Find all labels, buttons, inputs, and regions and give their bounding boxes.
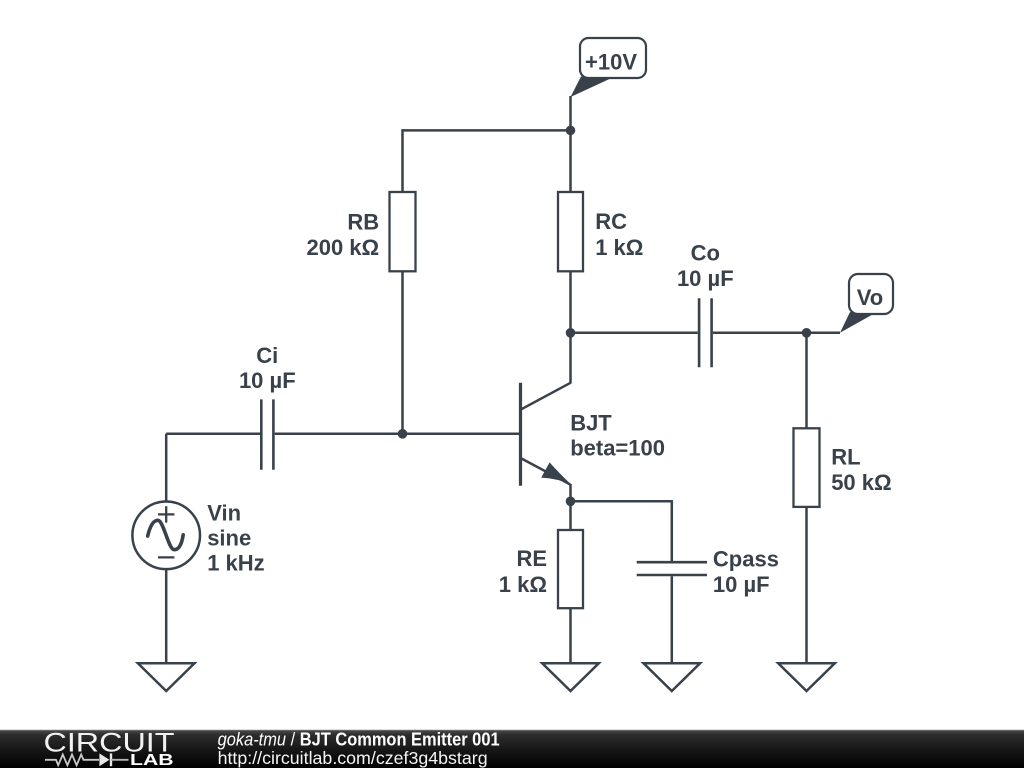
label RL 50 kOhm: [831, 444, 891, 495]
wire collector lead: [569, 333, 572, 384]
svg-text:Vin: Vin: [207, 500, 241, 525]
wire Vin bottom lead: [165, 569, 168, 663]
svg-text:1 kΩ: 1 kΩ: [499, 572, 547, 597]
ground RL: [778, 663, 835, 691]
label RC 1 kOhm: [595, 209, 643, 260]
svg-text:+10V: +10V: [585, 49, 637, 74]
svg-text:LAB: LAB: [130, 752, 174, 768]
wire Cpass top lead: [671, 500, 674, 561]
wire RE bottom lead: [569, 608, 572, 663]
node base junction: [398, 429, 408, 439]
wire RL top lead: [805, 333, 808, 429]
svg-text:RE: RE: [516, 546, 547, 571]
label Ci 10 uF: [239, 343, 296, 393]
capacitor Cpass: [637, 562, 707, 575]
label Co 10 uF: [677, 241, 734, 292]
svg-text:10 µF: 10 µF: [677, 266, 734, 291]
svg-text:http://circuitlab.com/czef3g4b: http://circuitlab.com/czef3g4bstarg: [218, 748, 488, 768]
svg-text:1 kHz: 1 kHz: [207, 551, 264, 576]
capacitor Ci: [261, 399, 273, 469]
resistor RC: [558, 192, 583, 271]
node supply junction: [566, 126, 576, 136]
svg-text:RB: RB: [347, 210, 379, 235]
wire Vin top lead: [165, 434, 168, 502]
svg-text:goka-tmu / BJT Common Emitter: goka-tmu / BJT Common Emitter 001: [218, 730, 500, 750]
footer bar: [0, 729, 1024, 768]
wire Co to Vo node: [713, 332, 807, 335]
wire Vin to Ci: [166, 433, 260, 436]
wire supply lead: [569, 96, 572, 130]
wire RE top lead: [569, 501, 572, 530]
node output junction: [566, 328, 576, 338]
power flag +10V: [571, 38, 647, 97]
wire Cpass bottom lead: [671, 576, 674, 663]
ground Cpass: [644, 663, 701, 691]
svg-text:10 µF: 10 µF: [713, 572, 770, 597]
wire Ci to base node: [275, 433, 403, 436]
svg-text:1 kΩ: 1 kΩ: [595, 235, 643, 260]
svg-text:Co: Co: [691, 241, 720, 266]
wire Vo flag lead: [807, 332, 841, 335]
logo CircuitLab: [44, 728, 175, 768]
svg-text:BJT: BJT: [570, 411, 612, 436]
svg-text:10 µF: 10 µF: [239, 368, 296, 393]
wire RB bottom lead: [401, 271, 404, 434]
transistor Q1 BJT: [521, 383, 572, 486]
svg-text:Ci: Ci: [256, 343, 278, 368]
svg-text:50 kΩ: 50 kΩ: [831, 470, 891, 495]
resistor RE: [558, 530, 583, 608]
svg-text:sine: sine: [207, 526, 251, 551]
resistor RL: [794, 428, 820, 507]
svg-text:beta=100: beta=100: [570, 436, 665, 461]
ground RE: [542, 663, 599, 691]
label Cpass 10 uF: [713, 547, 779, 597]
wire output to Co: [571, 332, 698, 335]
wire RB top lead: [401, 129, 404, 192]
wire RC bottom lead: [569, 271, 572, 333]
capacitor Co: [699, 298, 712, 367]
label BJT beta=100: [570, 411, 665, 461]
label Vin sine 1 kHz: [207, 500, 264, 575]
source V1 Vin sine: [132, 502, 200, 570]
svg-text:RL: RL: [831, 444, 860, 469]
svg-text:RC: RC: [595, 209, 627, 234]
svg-text:200 kΩ: 200 kΩ: [306, 235, 379, 260]
wire emitter lead: [569, 484, 572, 501]
label RB 200 kOhm: [306, 210, 379, 261]
svg-text:Vo: Vo: [857, 285, 883, 310]
label RE 1 kOhm: [499, 546, 547, 597]
wire RL bottom lead: [805, 507, 808, 663]
wire RC top lead: [569, 130, 572, 192]
svg-text:Cpass: Cpass: [713, 547, 779, 572]
resistor RB: [390, 192, 416, 271]
net flag Vo: [840, 274, 893, 333]
node Vo junction: [802, 328, 812, 338]
wire base lead: [403, 433, 520, 436]
wire emitter to Cpass: [571, 500, 672, 503]
node emitter junction: [566, 497, 576, 507]
wire top rail: [403, 129, 571, 132]
ground Vin: [138, 663, 195, 691]
